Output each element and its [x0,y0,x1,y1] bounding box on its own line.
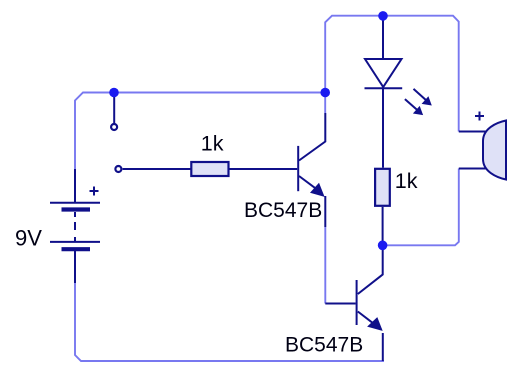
node dot: R2/Q2 collector node [378,241,388,251]
speaker LS1 [459,112,506,180]
resistor R1 leads / Q1 base wire [123,168,298,170]
resistor R2 [375,169,390,206]
svg-text:BC547B: BC547B [244,199,322,222]
svg-text:1k: 1k [201,131,224,155]
R2 bottom lead [382,207,384,245]
wire: bottom rail battery- to Q2 emitter [75,283,384,361]
node dot: top rail LED [378,11,388,21]
node dot: switch top [109,88,119,98]
svg-text:BC547B: BC547B [285,334,363,357]
wire: Q1 emitter to Q2 base [324,227,326,304]
svg-text:9V: 9V [15,226,42,251]
node dot: Q1 collector node [320,88,330,98]
svg-text:1k: 1k [395,169,418,193]
resistor R1 [191,162,228,176]
battery B1 [50,169,100,283]
transistor Q1 [298,113,325,227]
wire: battery+ up left side to top rail [75,93,325,170]
Q1 emitter arrow [310,183,325,197]
LED D1 [365,18,428,167]
switch SW1 [111,95,121,172]
wire: node V+ vertical up to top loop [325,16,459,132]
LED light arrows heads [422,96,432,105]
wire: speaker minus down to Q2 collector node [383,169,459,246]
Q2 emitter arrow [367,317,383,331]
transistor Q2 [325,249,383,361]
